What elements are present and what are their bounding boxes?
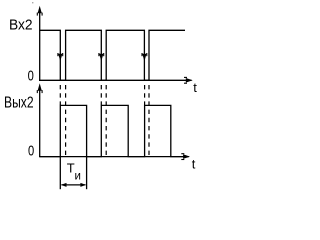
svg-text:t: t: [192, 156, 196, 171]
svg-text:Вых2: Вых2: [4, 95, 34, 112]
trigger arrowhead 1 (falling edge): [58, 54, 62, 62]
output waveform Вых2: [40, 105, 188, 156]
dashed line at falling edge 3: [144, 85, 146, 105]
svg-text:и: и: [75, 170, 81, 182]
dashed line at rising edge 3: [148, 85, 150, 155]
trigger arrowhead 2 (falling edge): [99, 54, 103, 62]
dashed line at rising edge 2: [105, 85, 107, 155]
svg-text:0: 0: [28, 67, 34, 84]
vertical axis arrowhead (bottom graph): [38, 83, 42, 90]
stray dot: [32, 2, 33, 3]
vertical axis (bottom graph): [39, 87, 41, 158]
horizontal axis arrowhead (bottom graph): [183, 154, 190, 159]
dashed line at falling edge 2: [100, 85, 102, 105]
svg-text:Вх2: Вх2: [9, 17, 33, 34]
horizontal axis arrowhead (top graph): [186, 78, 193, 83]
svg-text:0: 0: [28, 143, 34, 160]
dashed line at falling edge 1: [59, 85, 61, 105]
vertical axis (top graph): [39, 9, 41, 81]
vertical axis arrowhead (top graph): [38, 6, 42, 13]
extension line left (pulse width marker): [59, 157, 61, 189]
dimension line Ти: [62, 184, 86, 186]
horizontal axis (top graph): [39, 79, 192, 81]
dashed line at rising edge 1: [65, 85, 67, 155]
svg-text:t: t: [193, 80, 197, 95]
extension line right (pulse width marker): [86, 157, 88, 189]
trigger arrowhead 3 (falling edge): [142, 54, 146, 62]
horizontal axis (bottom graph): [39, 156, 189, 158]
input waveform Вх2: [40, 30, 185, 80]
